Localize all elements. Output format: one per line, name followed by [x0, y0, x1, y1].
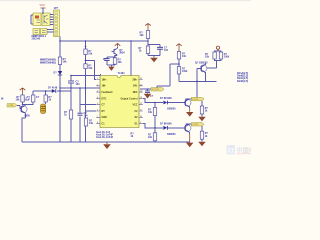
- resistor R15: [219, 52, 229, 59]
- resistor R14: [205, 52, 216, 59]
- svg-text:100k: 100k: [224, 55, 230, 58]
- port flag DTC: [151, 88, 164, 92]
- pin numbers: [97, 78, 142, 124]
- wire divider bottom: [179, 74, 217, 81]
- svg-text:OUT2: OUT2: [192, 124, 199, 126]
- svg-text:C?: C?: [36, 96, 40, 99]
- svg-text:REF: REF: [133, 91, 138, 94]
- wire R10 to RC: [148, 39, 160, 58]
- wire flag to pin: [140, 88, 151, 90]
- wire Q3 base: [191, 69, 197, 100]
- svg-text:RT: RT: [102, 110, 106, 113]
- wire pin to diode row 2: [143, 124, 163, 128]
- wire to IC top: [130, 41, 132, 76]
- svg-text:10k: 10k: [16, 98, 21, 101]
- ground (R17): [198, 117, 205, 122]
- optocoupler U2 (top-left block): [33, 13, 50, 26]
- svg-text:2IN-: 2IN-: [133, 85, 138, 88]
- wire bus to IC: [60, 87, 100, 89]
- svg-text:Output Control: Output Control: [121, 97, 138, 100]
- transistor Q4 SS8050: [167, 99, 191, 111]
- svg-text:10k: 10k: [88, 67, 93, 70]
- wires connector to optocoupler: [31, 8, 54, 32]
- power VCC (divider): [176, 44, 182, 52]
- ground (mid): [150, 58, 158, 63]
- diode D4 IN4148: [160, 123, 183, 130]
- svg-text:D? 4148: D? 4148: [48, 87, 58, 90]
- resistor R10: [140, 31, 150, 39]
- node A: [114, 55, 116, 57]
- svg-text:5: 5: [97, 103, 98, 105]
- svg-text:2IN+: 2IN+: [132, 78, 138, 81]
- transistor Q3 SS8550: [195, 61, 208, 74]
- svg-text:TL494: TL494: [118, 72, 126, 75]
- svg-text:21: 21: [227, 148, 234, 155]
- wire C1 bottom: [24, 102, 33, 105]
- wire Q3: [206, 61, 217, 82]
- svg-text:DimD(2,5): DimD(2,5): [237, 80, 248, 83]
- svg-text:D? IN4148: D? IN4148: [160, 123, 172, 126]
- wire R1 to node: [22, 102, 24, 105]
- svg-text:VCC: VCC: [40, 3, 46, 7]
- svg-text:4: 4: [97, 97, 98, 99]
- resistor R5: [84, 64, 93, 70]
- diode D1: [48, 87, 58, 93]
- svg-text:JP?: JP?: [54, 7, 59, 10]
- node bus-left: [59, 87, 61, 89]
- op-amp U1 TL494: [100, 72, 139, 127]
- svg-text:6: 6: [97, 110, 98, 112]
- relay K1 (small yellow block): [33, 29, 47, 35]
- svg-text:3904: 3904: [119, 52, 125, 55]
- resistor R19: [200, 126, 208, 142]
- wire Q2 emitter down: [22, 105, 26, 143]
- diode D3 IN4148: [160, 97, 183, 104]
- svg-text:C?: C?: [103, 58, 107, 61]
- svg-text:MMBT3904(B): MMBT3904(B): [40, 61, 56, 64]
- connector JP1: [54, 7, 60, 37]
- svg-text:100k: 100k: [182, 70, 188, 73]
- svg-text:Xout DL-1nF4Z: Xout DL-1nF4Z: [96, 136, 114, 139]
- resistor R3: [58, 57, 67, 65]
- svg-text:10k: 10k: [63, 61, 68, 64]
- resistor R4: [84, 49, 93, 56]
- svg-text:10uF: 10uF: [24, 98, 30, 101]
- svg-text:2SC945: 2SC945: [32, 38, 41, 41]
- svg-text:10k: 10k: [88, 53, 93, 56]
- svg-text:8: 8: [97, 122, 98, 124]
- svg-text:15: 15: [140, 84, 142, 86]
- zener diode D2: [54, 71, 63, 75]
- transistor Q1: [112, 47, 126, 56]
- wire flag to Q2: [17, 104, 20, 106]
- svg-text:7: 7: [97, 116, 98, 118]
- capacitor C6: [78, 112, 89, 118]
- ground (flag): [144, 93, 151, 99]
- resistor R7: [113, 58, 122, 64]
- svg-text:DTC12: DTC12: [152, 89, 160, 91]
- svg-text:9: 9: [140, 122, 141, 124]
- svg-text:GND: GND: [102, 116, 108, 119]
- capacitor C8: [157, 47, 169, 53]
- svg-text:104: 104: [76, 83, 81, 86]
- pin 9-16 stubs: [139, 80, 143, 124]
- resistor R18: [148, 128, 157, 142]
- wire J: [59, 37, 61, 89]
- svg-text:OUT1: OUT1: [192, 99, 199, 101]
- rails R14 R15: [215, 49, 221, 60]
- svg-text:10k: 10k: [89, 122, 94, 125]
- wire divider tap: [157, 59, 179, 88]
- svg-text:10k: 10k: [205, 55, 210, 58]
- svg-text:1IN-: 1IN-: [102, 85, 107, 88]
- svg-text:10k: 10k: [148, 136, 153, 139]
- ground (R19): [198, 142, 205, 147]
- transistor Q5 SS8050: [167, 124, 191, 136]
- svg-text:1IN+: 1IN+: [102, 78, 108, 81]
- watermark 21ic logo: [227, 145, 236, 155]
- svg-text:1: 1: [97, 78, 98, 80]
- svg-text:DTC: DTC: [102, 97, 107, 100]
- svg-text:10: 10: [140, 116, 142, 118]
- svg-text:16: 16: [140, 78, 142, 80]
- svg-text:11: 11: [140, 110, 142, 112]
- svg-text:2: 2: [97, 84, 98, 86]
- ground (Q5 on bus): [186, 134, 193, 147]
- capacitor C9: [145, 89, 154, 98]
- svg-text:IN: IN: [1, 98, 4, 101]
- svg-text:10k: 10k: [118, 61, 123, 64]
- power VCC (top-left): [40, 3, 46, 12]
- resistor R6: [64, 110, 73, 119]
- port flag ctrl: [1, 98, 17, 108]
- ground (above IC): [108, 67, 114, 71]
- svg-text:10k: 10k: [140, 34, 145, 37]
- svg-text:10k: 10k: [182, 55, 187, 58]
- node comp1 top: [42, 12, 44, 14]
- inductor L1: [41, 102, 46, 114]
- resistor R8: [84, 118, 93, 126]
- resistor R1: [16, 95, 25, 102]
- svg-text:SS8050: SS8050: [167, 108, 176, 111]
- svg-text:D? IN4148: D? IN4148: [160, 97, 172, 100]
- watermark text: [237, 146, 268, 154]
- svg-text:10k: 10k: [148, 111, 153, 114]
- ground bus: [22, 141, 190, 143]
- svg-text:CTRL: CTRL: [8, 105, 14, 107]
- resistor R2: [44, 95, 52, 102]
- wire top rail to IC corner: [71, 74, 101, 76]
- ground (center): [103, 142, 111, 149]
- port flag out1: [186, 97, 204, 101]
- capacitor C1: [24, 95, 39, 102]
- svg-text:VCC: VCC: [132, 104, 137, 107]
- wire left columns down: [60, 88, 96, 142]
- svg-text:8050: 8050: [25, 115, 31, 118]
- svg-text:D?: D?: [54, 72, 58, 75]
- wire column x85: [86, 41, 97, 142]
- ground (Q4): [186, 109, 193, 117]
- svg-text:C?: C?: [150, 95, 154, 98]
- wire flag1: [186, 98, 192, 100]
- wire rail y41: [60, 40, 148, 42]
- svg-text:12: 12: [140, 103, 142, 105]
- svg-text:14: 14: [140, 91, 142, 93]
- resistor R12: [177, 52, 186, 60]
- svg-text:3: 3: [97, 91, 98, 93]
- power VCC (above Q1): [115, 43, 121, 46]
- resistor R13: [177, 67, 188, 75]
- power VCC (left): [20, 88, 26, 95]
- power VCC (mid): [145, 24, 151, 31]
- capacitor C7: [103, 58, 110, 61]
- wire pin to diode row 1: [143, 98, 163, 102]
- port flag out2: [186, 123, 204, 127]
- resistor R17: [200, 101, 208, 117]
- rail above IC: [107, 56, 115, 67]
- wire mid row: [33, 88, 71, 95]
- resistor R16: [148, 103, 157, 143]
- svg-text:13: 13: [140, 97, 142, 99]
- resistor R11: [138, 46, 149, 54]
- power (circle): [216, 46, 219, 51]
- capacitor C5: [68, 76, 80, 89]
- svg-text:Q? SS8550: Q? SS8550: [195, 61, 208, 64]
- svg-text:SS8050: SS8050: [167, 133, 176, 136]
- svg-text:Feedback: Feedback: [102, 91, 114, 94]
- svg-text:CT: CT: [102, 104, 106, 107]
- transistor Q2: [20, 105, 30, 119]
- svg-text:104: 104: [164, 49, 169, 52]
- wire flag2: [186, 123, 192, 125]
- pin 1-8 stubs: [96, 80, 100, 124]
